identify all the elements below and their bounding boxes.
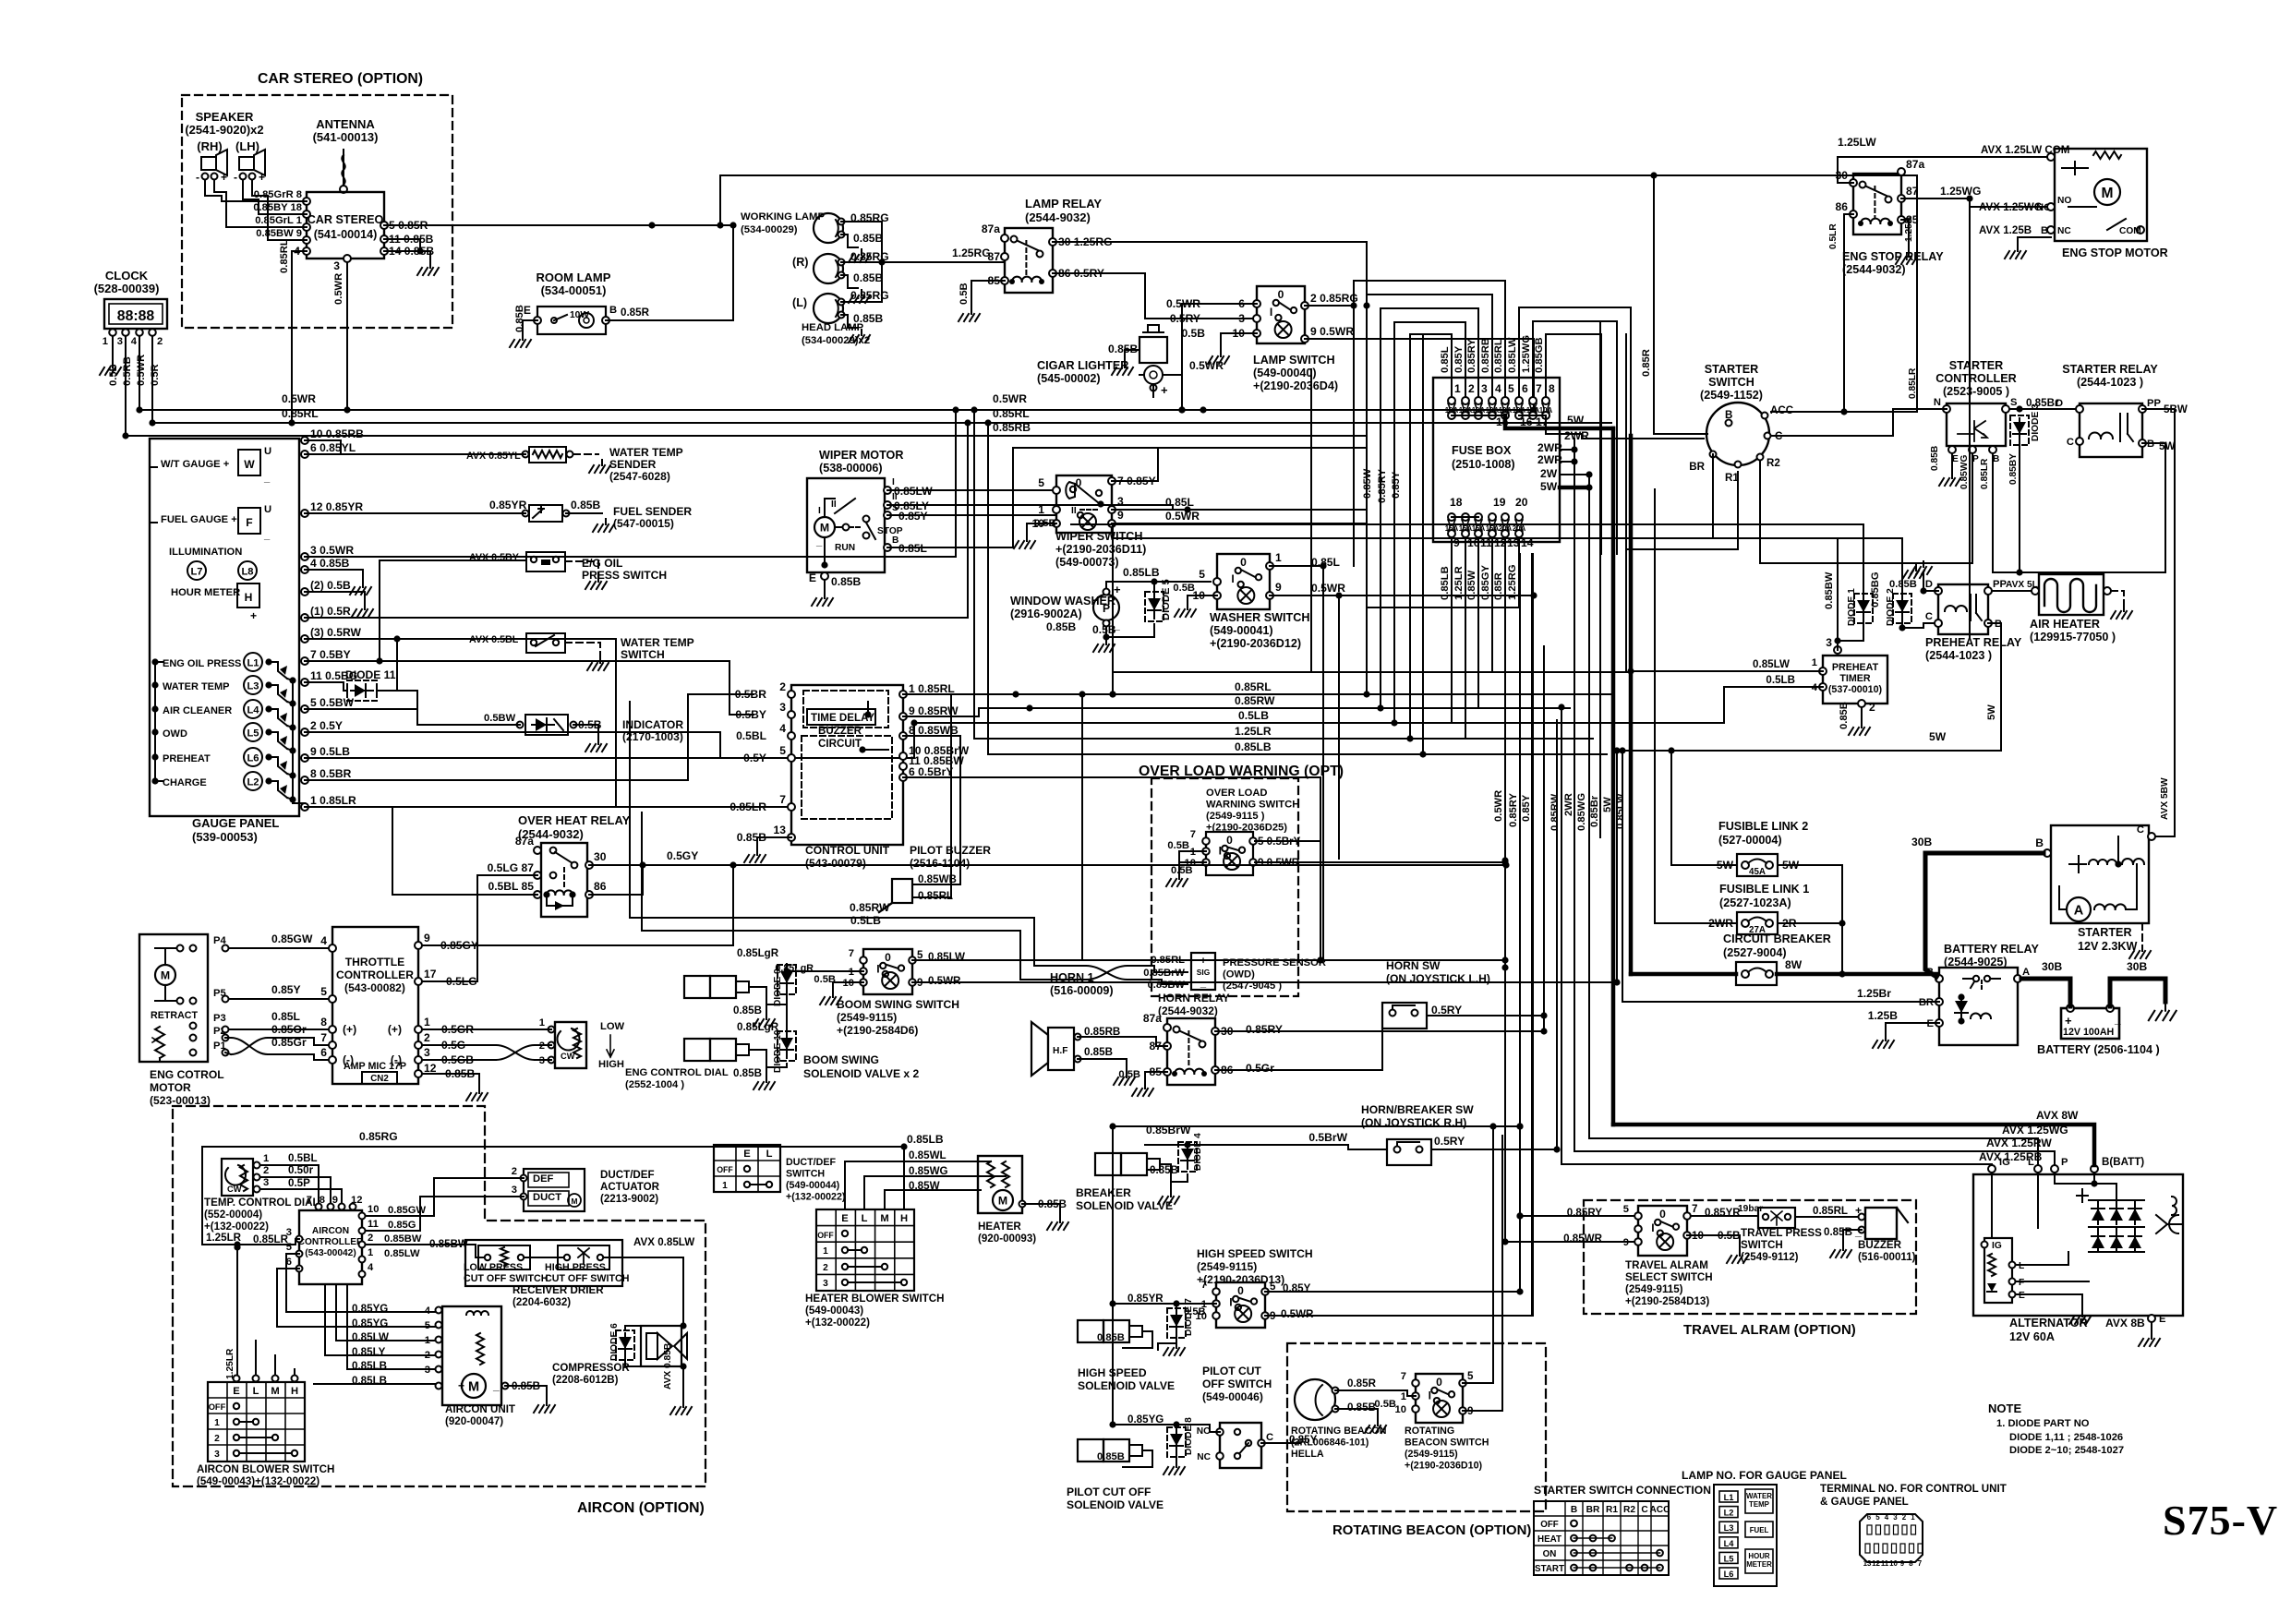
svg-text:SWITCH: SWITCH — [1708, 376, 1754, 389]
svg-text:2: 2 — [157, 336, 163, 347]
svg-text:5W: 5W — [1929, 730, 1947, 743]
svg-text:0.5B: 0.5B — [959, 283, 970, 305]
svg-text:1: 1 — [263, 1153, 269, 1164]
svg-text:PREHEAT RELAY: PREHEAT RELAY — [1925, 636, 2022, 649]
svg-text:0.85B: 0.85B — [733, 1067, 762, 1079]
top bus 0.85R — [720, 174, 1917, 176]
svg-text:(549-00043): (549-00043) — [805, 1305, 863, 1317]
svg-text:0: 0 — [885, 951, 891, 964]
svg-text:(545-00002): (545-00002) — [1037, 372, 1101, 385]
svg-text:M: M — [880, 1213, 888, 1224]
svg-text:0: 0 — [1226, 834, 1233, 847]
svg-text:ENG COTROL: ENG COTROL — [150, 1068, 224, 1081]
svg-text:ENG CONTROL DIAL: ENG CONTROL DIAL — [625, 1067, 729, 1078]
svg-text:TEMP: TEMP — [1749, 1500, 1769, 1509]
svg-text:3: 3 — [1893, 1513, 1898, 1522]
rotating beacon switch — [1416, 1374, 1463, 1423]
svg-text:0.85L: 0.85L — [271, 1010, 301, 1023]
svg-text:1.25RG: 1.25RG — [952, 247, 991, 259]
svg-text:1.25WG: 1.25WG — [1521, 335, 1532, 373]
bundle verticals center — [1353, 306, 1355, 566]
svg-text:(549-00073): (549-00073) — [1055, 556, 1119, 569]
svg-text:L7: L7 — [190, 567, 202, 578]
svg-text:0.85R: 0.85R — [1493, 572, 1504, 600]
svg-text:STARTER: STARTER — [1705, 363, 1759, 376]
svg-text:COMPRESSOR: COMPRESSOR — [552, 1362, 630, 1374]
svg-text:0.5LB: 0.5LB — [1238, 709, 1269, 722]
svg-text:I: I — [1229, 1295, 1232, 1308]
svg-text:(549-00044): (549-00044) — [786, 1180, 840, 1191]
starter switch lower stubs — [1600, 454, 1713, 538]
svg-text:FUSE BOX: FUSE BOX — [1452, 444, 1512, 457]
svg-text:20A: 20A — [1499, 524, 1513, 533]
svg-text:(2208-6012B): (2208-6012B) — [552, 1374, 619, 1386]
svg-text:E: E — [743, 1149, 751, 1160]
svg-text:+: + — [1161, 383, 1168, 397]
svg-text:0.5B: 0.5B — [1374, 1399, 1396, 1410]
svg-text:TERMINAL NO. FOR CONTROL U: TERMINAL NO. FOR CONTROL UNIT — [1820, 1483, 2007, 1495]
svg-text:0.85R: 0.85R — [1347, 1377, 1377, 1389]
svg-text:WARNING SWITCH: WARNING SWITCH — [1206, 800, 1299, 811]
svg-text:0: 0 — [1278, 288, 1284, 301]
svg-text:+: + — [250, 609, 257, 622]
svg-text:(920-00093): (920-00093) — [978, 1233, 1036, 1245]
rotating beacon option box — [1287, 1343, 1546, 1511]
svg-text:2: 2 — [263, 1165, 269, 1176]
svg-text:(2549-9115): (2549-9115) — [1625, 1283, 1683, 1295]
svg-text:0.85YG: 0.85YG — [352, 1317, 388, 1329]
svg-text:MOTOR: MOTOR — [150, 1081, 191, 1094]
svg-text:0.5BL: 0.5BL — [288, 1152, 318, 1164]
svg-text:0.85YG: 0.85YG — [352, 1303, 388, 1315]
svg-text:0.85B: 0.85B — [853, 271, 884, 284]
aircon unit — [442, 1306, 501, 1405]
svg-text:AVX 8W: AVX 8W — [2036, 1109, 2079, 1122]
svg-text:TIMER: TIMER — [1839, 673, 1871, 684]
svg-text:B: B — [609, 305, 617, 316]
svg-text:1: 1 — [1454, 382, 1461, 395]
svg-text:AIRCON: AIRCON — [312, 1226, 349, 1236]
svg-text:TRAVEL ALRAM: TRAVEL ALRAM — [1625, 1259, 1708, 1271]
svg-text:LAMP NO. FOR GAUGE PANEL: LAMP NO. FOR GAUGE PANEL — [1682, 1469, 1848, 1482]
svg-text:+: + — [2065, 1014, 2072, 1028]
svg-text:0.5LR: 0.5LR — [1828, 223, 1839, 249]
svg-text:5W: 5W — [1986, 704, 1997, 720]
svg-text:(2549-1152): (2549-1152) — [1700, 389, 1763, 402]
svg-text:OFF SWITCH: OFF SWITCH — [1202, 1377, 1272, 1390]
svg-text:S: S — [2010, 397, 2018, 408]
svg-text:9 0.5LB: 9 0.5LB — [310, 745, 350, 758]
svg-text:C: C — [1925, 611, 1933, 622]
svg-text:0.85LB: 0.85LB — [1235, 740, 1272, 753]
svg-text:10: 10 — [1889, 1559, 1898, 1568]
svg-text:+(132-00022): +(132-00022) — [805, 1317, 870, 1329]
svg-text:0.5WR: 0.5WR — [993, 392, 1027, 405]
svg-text:0: 0 — [1240, 556, 1247, 569]
svg-text:12: 12 — [424, 1062, 437, 1075]
svg-text:0.85LW: 0.85LW — [1615, 793, 1626, 829]
svg-text:(+): (+) — [388, 1023, 402, 1036]
svg-text:M: M — [271, 1386, 279, 1397]
svg-text:STARTER SWITCH CONNECTION: STARTER SWITCH CONNECTION — [1534, 1484, 1711, 1497]
svg-text:DIODE 4: DIODE 4 — [1193, 1133, 1203, 1171]
svg-text:E/G OIL: E/G OIL — [582, 557, 623, 570]
svg-text:+: + — [458, 1379, 464, 1392]
svg-text:-: - — [196, 171, 199, 184]
temp control dial — [222, 1159, 253, 1196]
svg-text:0: 0 — [1436, 1376, 1442, 1389]
svg-text:P: P — [2061, 1157, 2068, 1168]
svg-text:NO: NO — [1197, 1426, 1211, 1437]
svg-text:ROOM LAMP: ROOM LAMP — [537, 271, 611, 284]
throttle controller — [332, 927, 418, 1084]
svg-text:E: E — [841, 1213, 849, 1224]
svg-text:9: 9 — [332, 1195, 338, 1206]
svg-text:SOLENOID VALVE: SOLENOID VALVE — [1078, 1379, 1175, 1392]
svg-text:(-): (-) — [343, 1053, 354, 1066]
svg-text:(2204-6032): (2204-6032) — [512, 1296, 571, 1308]
svg-text:9: 9 — [424, 932, 430, 944]
svg-text:1: 1 — [1812, 657, 1817, 668]
diode 5 — [1148, 598, 1161, 610]
svg-text:0.85LR: 0.85LR — [1980, 458, 1990, 489]
svg-text:6: 6 — [320, 1046, 327, 1059]
svg-text:CONTROL UNIT: CONTROL UNIT — [805, 844, 890, 857]
svg-text:0.85RG: 0.85RG — [359, 1130, 398, 1143]
svg-text:3: 3 — [779, 701, 786, 714]
svg-text:TRAVEL PRESS: TRAVEL PRESS — [1741, 1227, 1822, 1239]
svg-text:(528-00039): (528-00039) — [94, 282, 160, 295]
svg-text:13: 13 — [1863, 1559, 1872, 1568]
svg-text:3: 3 — [512, 1185, 517, 1196]
svg-text:0.85B: 0.85B — [1097, 1451, 1125, 1462]
aircon unit wires — [286, 1254, 435, 1312]
svg-text:AVX 0.85YL: AVX 0.85YL — [466, 451, 521, 462]
svg-text:0.85B: 0.85B — [1150, 1164, 1178, 1176]
svg-text:F: F — [246, 516, 252, 529]
svg-text:86: 86 — [1836, 200, 1849, 213]
preheat wires top — [1071, 523, 1863, 525]
svg-text:3: 3 — [1238, 312, 1245, 325]
svg-text:_: _ — [492, 1379, 500, 1392]
svg-text:0.5WR: 0.5WR — [1189, 359, 1224, 372]
svg-text:0.85RG: 0.85RG — [850, 289, 889, 302]
svg-text:0.5B: 0.5B — [1167, 840, 1189, 851]
svg-text:(L): (L) — [792, 296, 807, 309]
svg-text:ROTATING BEACON (OPTION): ROTATING BEACON (OPTION) — [1332, 1523, 1531, 1538]
svg-text:NOTE: NOTE — [1988, 1401, 2021, 1415]
svg-text:P: P — [1103, 602, 1110, 615]
svg-text:L2: L2 — [247, 777, 259, 788]
svg-text:CAR STEREO (OPTION): CAR STEREO (OPTION) — [258, 71, 423, 87]
svg-text:2WR: 2WR — [1563, 793, 1574, 816]
svg-text:0.85Y: 0.85Y — [1283, 1282, 1311, 1294]
fuse loops right — [1519, 307, 1631, 554]
svg-text:BR: BR — [1586, 1505, 1600, 1515]
svg-text:+(2190-2584D6): +(2190-2584D6) — [837, 1024, 918, 1037]
svg-text:CIRCUIT: CIRCUIT — [818, 738, 862, 750]
svg-text:0.85RL: 0.85RL — [1813, 1205, 1848, 1217]
svg-text:ACC: ACC — [1770, 404, 1794, 416]
svg-text:0.85RY: 0.85RY — [1466, 339, 1477, 373]
svg-text:(2527-9004): (2527-9004) — [1723, 946, 1787, 959]
svg-text:AVX 1.25RB: AVX 1.25RB — [1979, 1150, 2043, 1163]
svg-text:0.85RB: 0.85RB — [993, 421, 1031, 434]
svg-text:RUN: RUN — [835, 543, 855, 553]
svg-text:(2541-9020)x2: (2541-9020)x2 — [185, 123, 263, 137]
svg-text:30B: 30B — [2127, 960, 2147, 973]
svg-text:1: 1 — [214, 1418, 220, 1428]
svg-text:CIRCUIT BREAKER: CIRCUIT BREAKER — [1723, 932, 1831, 945]
svg-text:PREHEAT: PREHEAT — [1832, 662, 1879, 673]
svg-text:DIODE 1,11 ; 2548-1026: DIODE 1,11 ; 2548-1026 — [2009, 1432, 2123, 1443]
svg-text:DIODE 3: DIODE 3 — [2031, 403, 2041, 441]
svg-text:HEAD LAMP: HEAD LAMP — [802, 322, 864, 333]
svg-text:S75-V: S75-V — [2163, 1497, 2278, 1544]
throttle wires right — [422, 865, 733, 945]
svg-text:0.85RL: 0.85RL — [993, 407, 1030, 420]
svg-text:C: C — [2067, 437, 2074, 448]
svg-text:L8: L8 — [241, 567, 253, 578]
svg-text:CONTROLLER: CONTROLLER — [336, 968, 414, 981]
svg-text:30B: 30B — [1911, 836, 1932, 848]
car stereo option dashed box — [182, 95, 452, 328]
svg-text:(2RL006846-101): (2RL006846-101) — [1291, 1438, 1369, 1449]
svg-text:DIODE 2~10; 2548-1027: DIODE 2~10; 2548-1027 — [2009, 1445, 2124, 1456]
svg-text:E: E — [809, 571, 816, 584]
svg-text:9: 9 — [1275, 581, 1282, 594]
svg-text:TEMP. CONTROL DIAL: TEMP. CONTROL DIAL — [204, 1197, 320, 1209]
svg-text:6: 6 — [1522, 382, 1528, 395]
svg-text:0.85LW: 0.85LW — [928, 951, 965, 963]
gauge left rail — [150, 466, 157, 468]
svg-text:OFF: OFF — [717, 1165, 733, 1174]
svg-text:0.5WR: 0.5WR — [333, 273, 344, 305]
svg-text:3: 3 — [1481, 382, 1488, 395]
svg-text:0.85YR: 0.85YR — [489, 499, 527, 511]
svg-text:0.85LgR: 0.85LgR — [737, 947, 779, 959]
svg-text:3: 3 — [263, 1177, 269, 1188]
svg-text:FUSIBLE LINK 2: FUSIBLE LINK 2 — [1718, 820, 1808, 833]
svg-text:0.85RW: 0.85RW — [1235, 694, 1275, 707]
svg-text:L: L — [862, 1213, 868, 1224]
svg-text:5W: 5W — [1540, 480, 1558, 493]
svg-text:7: 7 — [1201, 1280, 1207, 1291]
svg-text:0.85B: 0.85B — [1046, 620, 1077, 633]
wiper wires — [887, 489, 1056, 491]
svg-text:86: 86 — [594, 880, 607, 893]
svg-text:1: 1 — [539, 1017, 545, 1029]
svg-text:0.85LY: 0.85LY — [352, 1346, 386, 1358]
svg-text:19: 19 — [1493, 496, 1506, 509]
svg-text:AIR HEATER: AIR HEATER — [2030, 618, 2100, 631]
svg-text:3 0.5WR: 3 0.5WR — [310, 544, 354, 557]
svg-text:ACC: ACC — [1649, 1505, 1670, 1515]
svg-text:5: 5 — [286, 1242, 292, 1253]
svg-text:0.85GW: 0.85GW — [271, 932, 313, 945]
svg-text:L1: L1 — [1724, 1493, 1734, 1502]
svg-text:WATER TEMP: WATER TEMP — [621, 636, 694, 649]
svg-text:11: 11 — [368, 1219, 379, 1230]
svg-text:7: 7 — [779, 793, 786, 806]
svg-text:LAMP RELAY: LAMP RELAY — [1025, 197, 1102, 211]
svg-text:15A: 15A — [1459, 524, 1473, 533]
svg-text:SWITCH: SWITCH — [621, 648, 665, 661]
svg-text:PRESS SWITCH: PRESS SWITCH — [582, 569, 667, 582]
svg-text:R2: R2 — [1766, 457, 1780, 469]
svg-text:CONTROLLER: CONTROLLER — [1935, 372, 2016, 385]
svg-text:7: 7 — [1918, 1559, 1923, 1568]
svg-text:0.5RB: 0.5RB — [122, 356, 133, 386]
travel/beacon riser — [1516, 1123, 1523, 1129]
svg-text:I: I — [1270, 306, 1272, 319]
svg-text:L: L — [766, 1149, 773, 1160]
svg-text:(549-00040): (549-00040) — [1253, 367, 1317, 379]
svg-text:BATTERY RELAY: BATTERY RELAY — [1944, 943, 2039, 956]
svg-text:87a: 87a — [515, 835, 534, 848]
svg-text:12: 12 — [1872, 1559, 1880, 1568]
pilot cut off solenoid — [1078, 1439, 1103, 1462]
gauge lamp common rail — [293, 680, 305, 803]
svg-text:5W: 5W — [1602, 797, 1613, 812]
svg-text:30: 30 — [594, 850, 607, 863]
svg-text:0.5BR: 0.5BR — [735, 688, 767, 701]
starter motor — [2051, 825, 2149, 923]
misc long verticals upper — [1310, 369, 1312, 672]
svg-text:2WR: 2WR — [1537, 453, 1562, 466]
svg-text:(534-00029): (534-00029) — [741, 224, 798, 235]
svg-text:PRESSURE SENSOR: PRESSURE SENSOR — [1223, 957, 1326, 968]
svg-text:AVX 0.85LW: AVX 0.85LW — [633, 1236, 694, 1248]
svg-text:U: U — [264, 504, 271, 515]
svg-text:19bar: 19bar — [1738, 1204, 1763, 1214]
svg-text:SPEAKER: SPEAKER — [196, 110, 254, 124]
svg-text:I: I — [1219, 844, 1222, 857]
svg-text:30B: 30B — [2042, 960, 2062, 973]
svg-text:10A: 10A — [1539, 406, 1553, 415]
svg-text:5: 5 — [1467, 1370, 1474, 1382]
svg-text:(2549-9115): (2549-9115) — [1197, 1260, 1257, 1273]
svg-text:0.85GY: 0.85GY — [1480, 565, 1491, 600]
svg-text:13: 13 — [774, 824, 787, 836]
svg-text:0.85R: 0.85R — [1641, 349, 1652, 377]
svg-text:7: 7 — [1692, 1203, 1697, 1215]
svg-text:(R): (R) — [792, 256, 808, 269]
svg-text:0.85B: 0.85B — [733, 1004, 762, 1017]
svg-text:1: 1 — [722, 1181, 728, 1191]
svg-text:5: 5 — [1508, 382, 1514, 395]
travel alarm option box — [1584, 1200, 1916, 1314]
svg-text:COM: COM — [2119, 226, 2141, 236]
eng control motor — [139, 934, 208, 1062]
svg-text:M: M — [2102, 186, 2114, 201]
svg-text:& GAUGE PANEL: & GAUGE PANEL — [1820, 1496, 1909, 1508]
svg-text:0.85B: 0.85B — [853, 232, 884, 245]
lamp relay wires — [1053, 242, 1367, 306]
svg-text:6 0.5BrY: 6 0.5BrY — [909, 765, 953, 778]
svg-text:4: 4 — [1495, 382, 1501, 395]
svg-text:7 0.5BY: 7 0.5BY — [310, 648, 351, 661]
aircon blower switch — [208, 1382, 305, 1462]
svg-text:AVX 1.25LW COM: AVX 1.25LW COM — [1981, 144, 2069, 156]
svg-text:0.85RW: 0.85RW — [1549, 793, 1561, 831]
svg-text:10A: 10A — [1513, 406, 1526, 415]
svg-text:BUZZER: BUZZER — [1858, 1239, 1902, 1251]
svg-text:1. DIODE PART NO: 1. DIODE PART NO — [1996, 1418, 2090, 1429]
svg-text:DIODE 11: DIODE 11 — [345, 668, 396, 681]
svg-text:0.85L: 0.85L — [1165, 496, 1195, 509]
travel press switch — [1758, 1208, 1795, 1228]
svg-text:E: E — [233, 1386, 240, 1397]
svg-text:0.85BW: 0.85BW — [1824, 571, 1835, 609]
solenoid feeds riser — [1112, 1126, 1114, 1425]
svg-text:(538-00006): (538-00006) — [819, 462, 883, 475]
svg-text:II: II — [831, 499, 837, 510]
svg-text:9: 9 — [1117, 509, 1124, 522]
svg-text:(543-00079): (543-00079) — [805, 857, 866, 870]
svg-text:W: W — [244, 458, 255, 471]
svg-text:PREHEAT: PREHEAT — [163, 753, 211, 764]
svg-text:(552-00004): (552-00004) — [204, 1209, 262, 1221]
svg-text:C: C — [2137, 824, 2144, 836]
svg-text:3: 3 — [214, 1450, 220, 1460]
svg-text:ENG OIL PRESS: ENG OIL PRESS — [163, 658, 241, 669]
svg-text:2 0.5Y: 2 0.5Y — [310, 719, 343, 732]
svg-text:P: P — [1972, 454, 1979, 464]
svg-text:(RH): (RH) — [197, 139, 222, 153]
svg-text:B: B — [2035, 836, 2044, 849]
svg-text:0.85WG: 0.85WG — [1959, 455, 1970, 489]
svg-text:STARTER: STARTER — [2078, 926, 2132, 939]
svg-text:L4: L4 — [1724, 1539, 1735, 1548]
svg-text:OFF: OFF — [817, 1231, 834, 1240]
control unit pins left — [788, 691, 795, 698]
svg-text:10A: 10A — [1472, 406, 1486, 415]
svg-text:HEAT: HEAT — [1537, 1534, 1561, 1545]
bundle verticals right — [1531, 554, 1533, 1316]
svg-text:WIPER MOTOR: WIPER MOTOR — [819, 449, 903, 462]
wiper switch — [1056, 475, 1112, 533]
svg-text:H: H — [900, 1213, 908, 1224]
svg-text:SWITCH: SWITCH — [1741, 1239, 1783, 1251]
svg-text:4: 4 — [368, 1262, 374, 1273]
svg-text:CW: CW — [227, 1185, 242, 1194]
svg-text:2 0.85RG: 2 0.85RG — [1310, 292, 1358, 305]
svg-text:10A: 10A — [1445, 406, 1459, 415]
svg-text:BOOM SWING: BOOM SWING — [803, 1053, 879, 1066]
svg-text:(543-00042): (543-00042) — [305, 1248, 356, 1258]
svg-text:0.85Y: 0.85Y — [1391, 471, 1402, 499]
svg-text:0.5B: 0.5B — [1171, 865, 1193, 876]
svg-text:E: E — [1952, 454, 1959, 464]
thick AVX8W riser — [1611, 428, 1616, 1125]
svg-text:0.85LB: 0.85LB — [352, 1360, 387, 1372]
mid bus left risers — [973, 410, 975, 739]
travel alarm feeds — [1520, 1215, 1634, 1217]
svg-text:START: START — [1535, 1564, 1564, 1574]
svg-text:(129915-77050 ): (129915-77050 ) — [2030, 631, 2116, 644]
svg-text:SENDER: SENDER — [609, 458, 657, 471]
svg-text:(2552-1004 ): (2552-1004 ) — [625, 1079, 684, 1090]
svg-text:AIR CLEANER: AIR CLEANER — [163, 705, 232, 716]
svg-text:L3: L3 — [247, 681, 259, 692]
svg-text:4: 4 — [779, 722, 786, 735]
svg-text:+(2190-2036D12): +(2190-2036D12) — [1210, 637, 1301, 650]
svg-text:7: 7 — [320, 1031, 327, 1044]
svg-text:15A: 15A — [1472, 524, 1486, 533]
svg-text:0.85B: 0.85B — [514, 305, 525, 332]
svg-text:II: II — [1071, 506, 1077, 516]
